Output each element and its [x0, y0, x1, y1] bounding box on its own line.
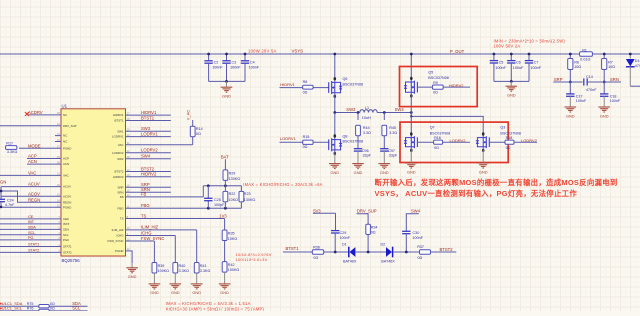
svg-text:L1: L1	[365, 106, 369, 110]
svg-text:BAT46X: BAT46X	[343, 260, 357, 264]
svg-text:ILIM_HIZ: ILIM_HIZ	[112, 228, 124, 232]
svg-text:SW2: SW2	[117, 157, 124, 161]
svg-text:C2: C2	[214, 61, 219, 65]
svg-text:R15: R15	[303, 135, 310, 139]
svg-text:INT: INT	[28, 220, 35, 224]
svg-text:HIDRV2: HIDRV2	[141, 172, 157, 177]
svg-text:GND: GND	[128, 274, 137, 279]
svg-text:D4: D4	[635, 59, 640, 63]
svg-text:SCL: SCL	[28, 231, 35, 235]
svg-text:100nF: 100nF	[413, 236, 424, 240]
svg-text:SW4: SW4	[395, 107, 405, 112]
svg-text:ACUV: ACUV	[28, 182, 40, 187]
svg-text:PG#: PG#	[63, 238, 69, 242]
svg-text:PGND: PGND	[63, 205, 71, 209]
svg-text:0Ω: 0Ω	[434, 146, 439, 150]
svg-text:Q5: Q5	[428, 71, 433, 75]
svg-text:Q7: Q7	[430, 125, 435, 129]
svg-text:VAC: VAC	[118, 143, 124, 147]
svg-text:ACDRV: ACDRV	[28, 110, 43, 115]
svg-text:GND: GND	[507, 93, 516, 98]
svg-text:LODRV2: LODRV2	[450, 138, 467, 143]
svg-text:47V: 47V	[635, 64, 640, 68]
svg-text:HIDRV2: HIDRV2	[113, 175, 124, 179]
svg-text:0Ω: 0Ω	[313, 256, 318, 260]
svg-text:0Ω: 0Ω	[303, 145, 308, 149]
svg-text:LODRV1: LODRV1	[141, 131, 158, 136]
svg-text:ACN: ACN	[28, 159, 37, 164]
svg-text:ICHG: ICHG	[141, 230, 151, 235]
svg-text:NC: NC	[63, 140, 67, 144]
svg-text:10Ω: 10Ω	[608, 65, 615, 69]
svg-text:U1C1_SCL: U1C1_SCL	[2, 306, 23, 311]
svg-text:FBG: FBG	[118, 206, 125, 210]
svg-text:GND: GND	[566, 113, 575, 118]
svg-text:TS: TS	[120, 217, 124, 221]
svg-text:SRN: SRN	[117, 190, 123, 194]
svg-text:SW3: SW3	[141, 126, 151, 131]
svg-text:100nF: 100nF	[610, 99, 621, 103]
svg-text:0Ω: 0Ω	[196, 132, 201, 136]
svg-text:U1: U1	[62, 103, 68, 108]
svg-text:GND: GND	[380, 170, 389, 175]
svg-text:R29: R29	[229, 172, 236, 176]
svg-text:P_OUT: P_OUT	[450, 49, 465, 54]
svg-text:BSC037N08: BSC037N08	[343, 82, 364, 86]
svg-text:SCL: SCL	[63, 233, 69, 237]
svg-text:SRP: SRP	[118, 185, 124, 189]
svg-text:R35: R35	[228, 232, 235, 236]
svg-text:BTST1: BTST1	[115, 119, 124, 123]
svg-text:BSC037N08: BSC037N08	[428, 76, 449, 80]
svg-text:PG: PG	[28, 236, 34, 240]
svg-text:ILIM_HIZ: ILIM_HIZ	[141, 225, 159, 230]
svg-text:HIDRV1: HIDRV1	[141, 110, 157, 115]
svg-text:STAT2: STAT2	[28, 248, 39, 252]
svg-text:PGND: PGND	[63, 146, 71, 150]
svg-text:100W 20V 5A: 100W 20V 5A	[248, 49, 277, 54]
svg-text:4.7nF: 4.7nF	[5, 203, 15, 207]
svg-text:STAT1: STAT1	[28, 243, 39, 247]
svg-text:C7: C7	[534, 61, 539, 65]
svg-text:MODE: MODE	[28, 143, 41, 148]
svg-text:R76: R76	[27, 307, 34, 311]
svg-text:R39: R39	[158, 264, 165, 268]
svg-text:R17: R17	[6, 141, 13, 145]
svg-text:VSYS， ACUV一直检测到有输入，PG灯亮，无法停止: VSYS， ACUV一直检测到有输入，PG灯亮，无法停止工作	[375, 189, 578, 198]
svg-text:BTST1: BTST1	[286, 246, 300, 251]
svg-text:100nF: 100nF	[495, 66, 506, 70]
svg-text:FSW_SYNC: FSW_SYNC	[141, 236, 164, 241]
svg-text:BQ25756: BQ25756	[62, 258, 81, 263]
svg-text:C17: C17	[576, 94, 583, 98]
svg-text:C24: C24	[7, 198, 14, 202]
svg-text:3.3Ω: 3.3Ω	[363, 131, 371, 135]
svg-text:100nF: 100nF	[340, 236, 351, 240]
svg-text:C4: C4	[250, 61, 255, 65]
svg-text:10KΩ: 10KΩ	[228, 237, 238, 241]
svg-text:100nF: 100nF	[249, 65, 260, 69]
svg-text:V_AC: V_AC	[185, 110, 190, 121]
svg-text:FBG: FBG	[141, 203, 150, 208]
svg-text:Q8: Q8	[343, 135, 348, 139]
svg-text:LODRV2: LODRV2	[521, 138, 538, 143]
svg-text:NC: NC	[63, 113, 67, 117]
svg-text:1V3: 1V3	[219, 213, 227, 218]
svg-text:STAT2: STAT2	[63, 251, 72, 255]
svg-text:R8: R8	[303, 80, 308, 84]
svg-text:HIDRV2: HIDRV2	[449, 83, 464, 88]
svg-text:LODRV1: LODRV1	[280, 136, 297, 141]
svg-text:SDA: SDA	[28, 225, 36, 229]
svg-text:SRP: SRP	[554, 77, 563, 82]
svg-text:ACP: ACP	[63, 157, 69, 161]
svg-text:470nF: 470nF	[586, 88, 597, 92]
svg-text:IMAX = KICHG/RICHG = 20A/3.3k: IMAX = KICHG/RICHG = 20A/3.3k =6A	[243, 182, 323, 187]
svg-text:BAT46X: BAT46X	[381, 260, 395, 264]
svg-text:BTST2: BTST2	[115, 170, 124, 174]
svg-text:C30: C30	[413, 231, 420, 235]
svg-text:100pF: 100pF	[214, 203, 225, 207]
svg-text:C14: C14	[586, 75, 593, 79]
svg-text:R40: R40	[179, 264, 186, 268]
svg-text:LODRV2: LODRV2	[141, 148, 158, 153]
svg-text:BSC037N08: BSC037N08	[343, 140, 364, 144]
svg-text:FSW_SYNC: FSW_SYNC	[107, 239, 123, 243]
svg-text:R44: R44	[363, 126, 370, 130]
svg-text:BAT: BAT	[221, 154, 229, 159]
svg-text:FB: FB	[141, 192, 147, 197]
svg-text:3.3KΩ: 3.3KΩ	[200, 269, 211, 273]
svg-text:R7: R7	[608, 60, 613, 64]
svg-text:GND: GND	[407, 169, 416, 174]
svg-text:C5: C5	[499, 61, 504, 65]
svg-text:Q3: Q3	[500, 125, 505, 129]
svg-text:0.01Ω: 0.01Ω	[580, 57, 590, 61]
svg-text:GND: GND	[220, 290, 229, 295]
svg-text:3.3Ω: 3.3Ω	[389, 131, 397, 135]
svg-text:C18: C18	[610, 94, 617, 98]
svg-text:SW3: SW3	[346, 107, 356, 112]
svg-text:FB: FB	[120, 195, 124, 199]
svg-text:GND: GND	[600, 113, 609, 118]
svg-text:断开输入后，发现这两颗MOS的栅极一直有输出，造成MOS反向: 断开输入后，发现这两颗MOS的栅极一直有输出，造成MOS反向漏电到	[375, 178, 618, 187]
svg-text:ACN: ACN	[63, 162, 69, 166]
svg-text:ACOV: ACOV	[63, 194, 71, 198]
svg-text:GND: GND	[150, 290, 159, 295]
svg-text:5V3: 5V3	[313, 208, 321, 213]
svg-text:0Ω: 0Ω	[50, 302, 55, 306]
svg-text:R1: R1	[582, 49, 587, 53]
svg-text:SW4: SW4	[411, 208, 421, 213]
svg-text:SRN: SRN	[610, 77, 619, 82]
svg-text:R14: R14	[196, 127, 203, 131]
svg-text:ICHG: ICHG	[116, 234, 124, 238]
svg-text:SW1: SW1	[117, 129, 124, 133]
svg-text:GND: GND	[330, 170, 339, 175]
svg-text:GND: GND	[192, 290, 201, 295]
svg-text:LODRV2: LODRV2	[112, 151, 124, 155]
svg-text:10Ω: 10Ω	[574, 65, 581, 69]
svg-text:R36: R36	[313, 246, 320, 250]
svg-text:R42: R42	[228, 263, 235, 267]
svg-text:TS: TS	[141, 213, 147, 218]
svg-text:GND: GND	[171, 290, 180, 295]
svg-text:BTST1: BTST1	[141, 115, 155, 120]
svg-text:R45: R45	[389, 126, 396, 130]
svg-text:VAC: VAC	[63, 174, 69, 178]
svg-text:C3: C3	[232, 61, 237, 65]
svg-text:100nF: 100nF	[531, 66, 542, 70]
svg-text:GND: GND	[222, 94, 231, 99]
svg-text:VAC: VAC	[28, 170, 36, 175]
svg-text:C25: C25	[214, 198, 221, 202]
svg-text:REGN: REGN	[28, 197, 40, 202]
svg-text:130KΩ: 130KΩ	[244, 198, 256, 202]
svg-text:GND: GND	[354, 170, 363, 175]
svg-text:33pF: 33pF	[389, 154, 398, 158]
svg-text:D1: D1	[342, 243, 347, 247]
svg-text:LODRV1: LODRV1	[112, 135, 124, 139]
svg-text:STAT1: STAT1	[63, 245, 72, 249]
svg-text:33pF: 33pF	[363, 154, 372, 158]
svg-text:SCL: SCL	[72, 306, 81, 311]
svg-text:BTST2: BTST2	[440, 247, 454, 252]
svg-text:PGND: PGND	[115, 249, 123, 253]
svg-text:130KΩ: 130KΩ	[229, 177, 241, 181]
svg-text:Q6: Q6	[343, 77, 348, 81]
svg-text:INT#: INT#	[63, 222, 70, 226]
svg-text:3.3KΩ: 3.3KΩ	[179, 269, 190, 273]
svg-text:KICHG=30 (AMP) × 5(mΩ) / 10(mΩ: KICHG=30 (AMP) × 5(mΩ) / 10(mΩ) = 75 (AM…	[166, 306, 265, 311]
svg-text:VSYS: VSYS	[292, 49, 304, 54]
svg-text:SDA: SDA	[63, 228, 69, 232]
svg-text:100nF: 100nF	[576, 99, 587, 103]
svg-text:R41: R41	[200, 264, 207, 268]
svg-text:R37: R37	[417, 245, 424, 249]
svg-text:ACUV: ACUV	[63, 185, 71, 189]
svg-text:R6: R6	[574, 60, 579, 64]
svg-text:100V 50V 2A: 100V 50V 2A	[494, 43, 521, 48]
svg-text:R9: R9	[433, 81, 438, 85]
svg-text:C6: C6	[516, 61, 521, 65]
svg-text:R22: R22	[229, 192, 236, 196]
svg-text:GND: GND	[479, 169, 488, 174]
svg-text:CE: CE	[28, 215, 34, 219]
svg-text:10uH: 10uH	[362, 116, 371, 120]
svg-text:NC: NC	[63, 134, 67, 138]
svg-text:CE#: CE#	[63, 217, 69, 221]
svg-text:R23: R23	[244, 192, 251, 196]
svg-text:D2: D2	[381, 243, 386, 247]
svg-text:100nF: 100nF	[212, 65, 223, 69]
svg-text:ACOV: ACOV	[28, 191, 40, 196]
svg-text:R16: R16	[434, 136, 441, 140]
svg-text:R18: R18	[506, 136, 513, 140]
svg-text:ACP: ACP	[28, 154, 37, 159]
svg-text:C29: C29	[340, 231, 347, 235]
svg-text:0Ω: 0Ω	[506, 146, 511, 150]
svg-text:R75: R75	[27, 302, 34, 306]
svg-text:R34: R34	[371, 226, 378, 230]
svg-text:100/110*3.0=3V: 100/110*3.0=3V	[236, 257, 268, 262]
svg-text:3.3KΩ: 3.3KΩ	[7, 150, 18, 154]
svg-text:C97: C97	[388, 149, 395, 153]
svg-text:DRV_SUP: DRV_SUP	[63, 124, 77, 128]
svg-text:C96: C96	[362, 149, 369, 153]
svg-text:0Ω: 0Ω	[50, 307, 55, 311]
svg-text:0Ω: 0Ω	[418, 256, 423, 260]
svg-text:SW4: SW4	[141, 154, 151, 159]
svg-text:0Ω: 0Ω	[433, 90, 438, 94]
svg-text:100KΩ: 100KΩ	[228, 268, 240, 272]
svg-text:DRV_SUP: DRV_SUP	[357, 209, 377, 214]
svg-text:GN: GN	[0, 180, 6, 185]
svg-text:100KΩ: 100KΩ	[158, 269, 170, 273]
svg-text:REGN: REGN	[63, 200, 71, 204]
svg-text:HIDRV1: HIDRV1	[113, 113, 124, 117]
svg-text:0Ω: 0Ω	[303, 91, 308, 95]
svg-text:HIDRV1: HIDRV1	[280, 82, 295, 87]
svg-text:10KΩ: 10KΩ	[229, 198, 239, 202]
svg-text:100nF: 100nF	[230, 65, 241, 69]
svg-text:100nF: 100nF	[513, 66, 524, 70]
svg-text:0Ω: 0Ω	[371, 230, 376, 234]
